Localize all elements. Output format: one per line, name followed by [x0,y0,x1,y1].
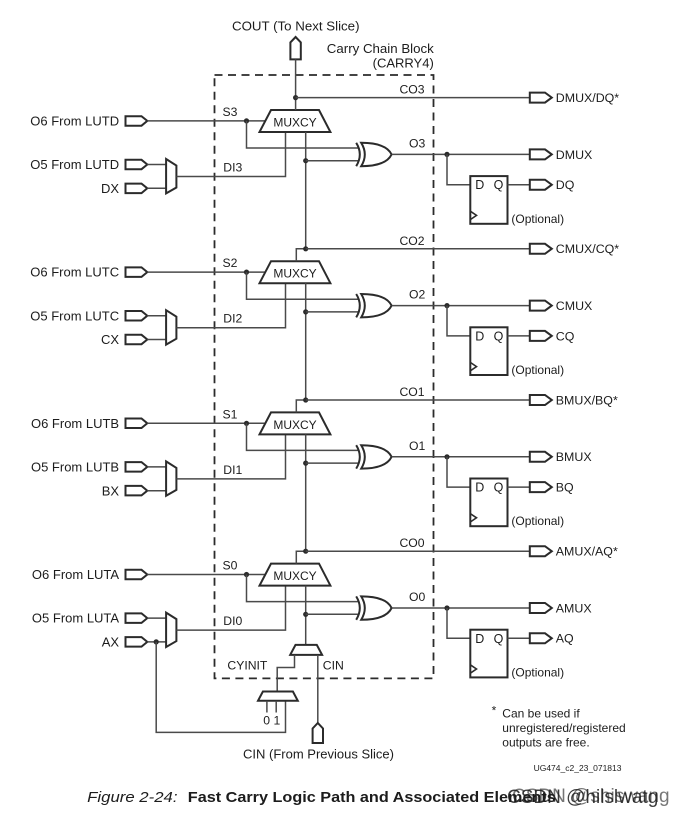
output port CMUX/CQ* [530,242,620,256]
node CO3 junction [293,95,298,100]
svg-text:CIN: CIN [323,658,344,672]
wire CO3 to DMUX/DQ* port [296,97,530,99]
wire CX to bypass mux [147,339,166,341]
svg-text:BMUX/BQ*: BMUX/BQ* [556,393,618,407]
wire CYINIT input path [277,655,294,692]
svg-text:MUXCY: MUXCY [273,116,316,130]
wire flip-flop Q to DQ port [508,184,530,186]
svg-text:O6 From LUTA: O6 From LUTA [32,567,119,582]
svg-text:(Optional): (Optional) [511,665,564,679]
wire S2 branch to XOR top input [247,272,359,299]
xor gate stage 0 [356,596,391,619]
wire DI3 from bypass mux to MUXCY [176,132,285,177]
svg-text:unregistered/registered: unregistered/registered [502,721,625,735]
wire S3 branch to XOR top input [247,121,359,148]
svg-text:DI1: DI1 [223,463,242,477]
wire O5 to bypass mux [147,617,166,619]
mux MUXCY stage 3 [260,110,331,132]
wire MUXCY output jog to CO1 node [296,400,305,412]
svg-text:(Optional): (Optional) [511,212,564,226]
wire CO1 to output port [306,399,530,401]
svg-text:BQ: BQ [556,481,574,495]
wire DX to bypass mux [147,187,166,189]
svg-text:DI2: DI2 [223,312,242,326]
wire S0 from O6 input to MUXCY select [147,574,265,576]
output port CQ [530,329,575,343]
output port AMUX/AQ* [530,545,618,559]
wire carry chain into MUXCY stage 3 [305,132,307,249]
node carry tap to XOR stage 0 [303,612,308,617]
input port O6 From LUTD [30,114,147,129]
flip-flop stage 1 [470,479,507,527]
svg-text:DMUX: DMUX [556,148,592,162]
wire O0 from XOR output [392,607,530,609]
wire O3 to flip-flop D input [447,154,470,184]
svg-text:O2: O2 [409,288,425,302]
wire O5 to bypass mux [147,466,166,468]
carry chain block dashed border [215,75,434,678]
port COUT arrow [290,37,300,59]
svg-text:COUT (To Next Slice): COUT (To Next Slice) [232,19,360,34]
wire carry chain into MUXCY stage 2 [305,283,307,400]
svg-text:D: D [475,632,484,646]
svg-text:O5 From LUTB: O5 From LUTB [31,460,119,475]
svg-text:O6 From LUTB: O6 From LUTB [31,416,119,431]
input port O5 From LUTC [30,308,147,323]
note asterisk footnote [492,703,626,749]
output port DMUX [530,148,592,162]
wire O1 to flip-flop D input [447,457,470,487]
wire S1 branch to XOR top input [247,423,359,450]
input port O5 From LUTD [30,157,147,172]
svg-text:O6 From LUTC: O6 From LUTC [30,265,119,280]
svg-text:(Optional): (Optional) [511,363,564,377]
svg-text:BX: BX [102,483,120,498]
mux O5/DX bypass mux [166,159,176,193]
svg-text:CSDN @shiswang: CSDN @shiswang [512,786,670,807]
svg-text:CMUX/CQ*: CMUX/CQ* [556,242,620,256]
svg-text:MUXCY: MUXCY [273,418,316,432]
output port BMUX [530,450,592,464]
mux O5/AX bypass mux [166,613,176,647]
svg-text:O5 From LUTD: O5 From LUTD [30,157,119,172]
port CIN arrow [313,723,323,743]
svg-text:CYINIT: CYINIT [227,658,268,672]
svg-text:Figure 2-24:: Figure 2-24: [87,789,177,806]
output port BQ [530,481,574,495]
svg-text:CO2: CO2 [400,234,425,248]
node S3 junction [244,118,249,123]
wire carry tap to XOR bottom input [306,160,359,162]
wire constant 1 stub [275,701,277,713]
output port AMUX [530,601,592,615]
node carry tap to XOR stage 3 [303,158,308,163]
node AX junction [154,639,159,644]
svg-text:MUXCY: MUXCY [273,267,316,281]
svg-text:S1: S1 [223,407,238,421]
svg-text:DMUX/DQ*: DMUX/DQ* [556,91,620,105]
svg-text:DI0: DI0 [223,614,242,628]
svg-text:Can be used if: Can be used if [502,706,580,720]
wire O2 to flip-flop D input [447,306,470,336]
wire COUT vertical [295,59,297,97]
flip-flop stage 0 [470,630,507,678]
mux 0/1 constant select [258,692,298,701]
svg-text:CIN (From Previous Slice): CIN (From Previous Slice) [243,746,394,761]
wire S2 from O6 input to MUXCY select [147,271,265,273]
flip-flop stage 2 [470,327,507,375]
svg-text:CX: CX [101,332,119,347]
svg-text:Carry Chain Block: Carry Chain Block [327,41,435,56]
flip-flop stage 3 [470,176,507,224]
wire MUXCY output to CO3 node [295,98,297,110]
svg-text:AMUX/AQ*: AMUX/AQ* [556,545,618,559]
wire S3 from O6 input to MUXCY select [147,120,265,122]
svg-text:AX: AX [102,635,120,650]
mux O5/BX bypass mux [166,461,176,495]
svg-text:(CARRY4): (CARRY4) [373,55,434,70]
wire CIN vertical [317,655,319,723]
svg-text:Q: Q [494,329,504,343]
wire carry tap to XOR bottom input [306,462,359,464]
wire CO2 to output port [306,248,530,250]
output port DQ [530,178,575,192]
output port DMUX/DQ* [530,91,620,105]
node S1 junction [244,421,249,426]
xor gate stage 2 [356,294,391,317]
node S2 junction [244,270,249,275]
svg-text:D: D [475,481,484,495]
svg-text:O3: O3 [409,137,425,151]
input port AX [102,635,148,650]
input port O5 From LUTA [32,611,147,626]
node O3 junction [444,152,449,157]
svg-text:DX: DX [101,181,119,196]
svg-text:S2: S2 [223,256,238,270]
mux O5/CX bypass mux [166,310,176,344]
wire carry chain into MUXCY stage 0 [305,586,307,645]
wire flip-flop Q to AQ port [508,637,530,639]
wire MUXCY output jog to CO2 node [296,249,305,261]
input port BX [102,483,148,498]
svg-text:S0: S0 [223,559,238,573]
svg-text:D: D [475,178,484,192]
wire DI1 from bypass mux to MUXCY [176,434,285,479]
xor gate stage 1 [356,445,391,468]
node O2 junction [444,303,449,308]
node CO0 junction [303,549,308,554]
node CO2 junction [303,246,308,251]
svg-text:outputs are free.: outputs are free. [502,736,589,750]
wire S1 from O6 input to MUXCY select [147,422,265,424]
svg-text:CO0: CO0 [400,536,425,550]
node S0 junction [244,572,249,577]
input port CX [101,332,147,347]
svg-text:S3: S3 [223,105,238,119]
watermark CSDN [507,786,670,808]
node O1 junction [444,454,449,459]
wire DI2 from bypass mux to MUXCY [176,283,285,328]
wire constant 0 stub [266,701,268,713]
mux MUXCY stage 2 [260,261,331,283]
node carry tap to XOR stage 1 [303,461,308,466]
wire carry tap to XOR bottom input [306,613,359,615]
input port O5 From LUTB [31,460,147,475]
svg-text:O5 From LUTA: O5 From LUTA [32,611,119,626]
input port O6 From LUTC [30,265,147,280]
input port O6 From LUTA [32,567,147,582]
wire O2 from XOR output [392,305,530,307]
wire S0 branch to XOR top input [247,575,359,602]
node O0 junction [444,605,449,610]
svg-text:Q: Q [494,178,504,192]
wire MUXCY output jog to CO0 node [296,551,305,563]
mux MUXCY stage 1 [260,412,331,434]
svg-text:Q: Q [494,481,504,495]
svg-text:Fast Carry Logic Path and Asso: Fast Carry Logic Path and Associated Ele… [188,789,556,806]
svg-text:CQ: CQ [556,329,575,343]
input port DX [101,181,147,196]
svg-text:CO1: CO1 [400,385,425,399]
svg-text:*: * [492,703,497,717]
mux MUXCY stage 0 [260,564,331,586]
svg-text:0 1: 0 1 [263,714,280,728]
svg-text:AMUX: AMUX [556,601,592,615]
svg-text:DI3: DI3 [223,160,242,174]
svg-text:(Optional): (Optional) [511,514,564,528]
svg-text:CO3: CO3 [400,83,425,97]
output port AQ [530,632,574,646]
wire CO0 to output port [306,550,530,552]
xor gate stage 3 [356,143,391,166]
wire O1 from XOR output [392,456,530,458]
wire flip-flop Q to CQ port [508,335,530,337]
wire O5 to bypass mux [147,315,166,317]
wire O3 from XOR output [392,153,530,155]
node CO1 junction [303,397,308,402]
wire carry tap to XOR bottom input [306,311,359,313]
svg-text:O5 From LUTC: O5 From LUTC [30,308,119,323]
wire AX to bypass mux [147,641,166,643]
svg-text:MUXCY: MUXCY [273,569,316,583]
svg-text:Q: Q [494,632,504,646]
svg-text:AQ: AQ [556,632,574,646]
svg-text:O6 From LUTD: O6 From LUTD [30,114,119,129]
output port BMUX/BQ* [530,393,618,407]
wire DI0 from bypass mux to MUXCY [176,586,285,631]
input port O6 From LUTB [31,416,147,431]
svg-text:UG474_c2_23_071813: UG474_c2_23_071813 [534,763,622,773]
wire AX branch to 0/1 mux [156,642,285,733]
wire O5 to bypass mux [147,164,166,166]
svg-text:BMUX: BMUX [556,450,592,464]
mux CYINIT/CIN select [290,645,322,655]
wire flip-flop Q to BQ port [508,486,530,488]
svg-text:CMUX: CMUX [556,299,592,313]
wire carry chain into MUXCY stage 1 [305,434,307,551]
svg-text:DQ: DQ [556,178,575,192]
svg-text:O0: O0 [409,590,425,604]
wire O0 to flip-flop D input [447,608,470,638]
wire BX to bypass mux [147,490,166,492]
output port CMUX [530,299,592,313]
svg-text:O1: O1 [409,439,425,453]
node carry tap to XOR stage 2 [303,309,308,314]
svg-text:D: D [475,329,484,343]
